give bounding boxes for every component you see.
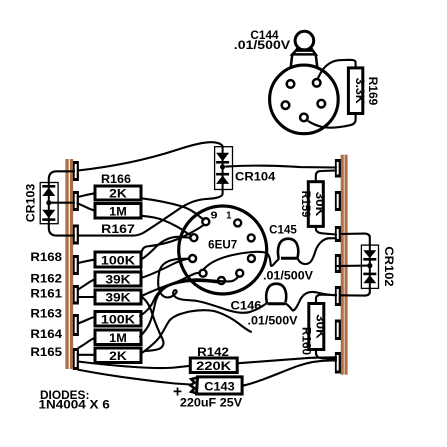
lug L2 (73, 191, 79, 211)
lugs left strip (73, 161, 79, 370)
pin 3 (248, 255, 255, 262)
svg-text:2K: 2K (109, 351, 127, 363)
resistor R165 (95, 348, 141, 363)
wire R160 bottom to lug G (316, 349, 336, 359)
wire sweep pin 6 to C145 left (204, 252, 279, 270)
wire R159 bottom to lug C (316, 226, 336, 234)
wire CR102 top to lug C (340, 234, 370, 246)
wire R159 top to lug A (316, 171, 336, 182)
wire R168 right to pin 8 (142, 237, 191, 259)
pin 5 (218, 277, 225, 284)
svg-text:.01/500V: .01/500V (248, 316, 298, 328)
lug R4 (335, 254, 341, 273)
wire R163 right to pin 5 (140, 281, 218, 316)
wire lug7 to C143 left (78, 370, 191, 385)
lug L7 (73, 348, 79, 370)
svg-text:R160: R160 (300, 327, 312, 355)
resistor R142 (190, 358, 237, 373)
wire CR104 bottom, down-left to lug3 wire (78, 189, 223, 235)
svg-text:R169: R169 (366, 77, 378, 106)
resistor R166 (95, 186, 141, 201)
capacitor C143 (190, 377, 242, 394)
wire CR103 top to lug1 (49, 171, 74, 183)
lug R7 (335, 352, 341, 374)
wire lug7 to R142 left (78, 362, 190, 369)
lug R3 (335, 226, 341, 242)
wire J hook from R161 stub (141, 296, 164, 351)
pin 8 (190, 234, 197, 241)
wire R167 1M right to pin 8 top (142, 216, 192, 236)
svg-text:R163: R163 (30, 309, 62, 321)
svg-text:1N4004 X 6: 1N4004 X 6 (39, 400, 110, 412)
terminal strip left (65, 159, 73, 369)
wire R164 right to pin 4 (140, 276, 239, 336)
lug L1 (73, 161, 79, 181)
wire CR103 mid to lug2 (49, 202, 74, 204)
socket C144 pin d (318, 100, 326, 108)
wire lug7 to R165 left (78, 354, 95, 356)
capacitor C146 (266, 284, 286, 304)
svg-text:R161: R161 (30, 289, 62, 301)
pin 6 (200, 270, 207, 277)
svg-text:C145: C145 (269, 225, 297, 237)
svg-text:R159: R159 (299, 191, 311, 218)
socket C144 pin c (282, 101, 290, 109)
lug R1 (335, 159, 341, 178)
lugs right strip (335, 159, 341, 374)
svg-text:6EU7: 6EU7 (208, 240, 237, 252)
wire R166 right to pin 9 (142, 198, 204, 219)
svg-text:1: 1 (226, 209, 231, 221)
wire lug5 to R161 left (78, 296, 95, 298)
lug R6 (335, 320, 341, 341)
diode pack CR103 (40, 183, 58, 224)
wire C143 right to lug G (242, 360, 336, 385)
lug R2 (335, 191, 341, 211)
wire C145 right to lug C (298, 238, 337, 264)
resistor R160 (309, 304, 326, 350)
wire R160 top to lug E (316, 295, 336, 304)
pin 7 (189, 255, 196, 262)
wire R165 right long sweep (142, 310, 252, 353)
svg-text:CR103: CR103 (26, 184, 38, 223)
pin 1 (234, 219, 241, 226)
svg-text:3.3K: 3.3K (353, 78, 365, 105)
svg-text:9: 9 (211, 209, 218, 221)
svg-text:.01/500V: .01/500V (234, 40, 291, 52)
wire CR102 bottom to lug E (340, 288, 370, 295)
resistor R169 (348, 68, 365, 114)
wire pin 7 loop to C146 left leg (158, 259, 266, 313)
resistor R163 (95, 312, 141, 327)
lug R5 (335, 286, 341, 306)
resistor R167 1M (95, 204, 141, 219)
svg-text:R164: R164 (30, 329, 62, 341)
wire pin 9 down to R162 stub (141, 225, 204, 278)
wire lug5 to R162 left (78, 279, 95, 289)
wire lug2 to R166 left (78, 193, 96, 197)
diode pack CR102 (361, 245, 378, 288)
tube socket C144 (270, 65, 339, 134)
svg-text:220K: 220K (196, 361, 232, 373)
resistor R168 (95, 252, 141, 268)
svg-text:30K: 30K (313, 192, 325, 217)
wire lug6 to R163 left (78, 317, 95, 324)
svg-text:R168: R168 (30, 252, 62, 264)
wire R169 bottom to C144 socket bottom (309, 114, 356, 128)
svg-text:R166: R166 (101, 174, 131, 186)
svg-text:C146: C146 (231, 301, 262, 313)
svg-text:39K: 39K (105, 275, 131, 287)
svg-text:2K: 2K (109, 189, 127, 201)
wire CR104 mid to right lug A (226, 166, 336, 168)
svg-text:R142: R142 (197, 347, 229, 359)
wires group (49, 60, 370, 386)
pin 2 (248, 234, 255, 241)
wire lug1 to CR104 top (78, 142, 223, 170)
svg-text:R167: R167 (101, 224, 135, 236)
diode pack CR104 (215, 147, 233, 190)
lug L3 (73, 225, 79, 245)
wire lug2 to R167 left (78, 204, 96, 211)
socket C144 pin a (287, 80, 295, 88)
pin 4 (236, 270, 243, 277)
svg-text:39K: 39K (105, 293, 131, 305)
svg-text:220uF 25V: 220uF 25V (180, 398, 243, 410)
resistor R161 (95, 290, 141, 305)
capacitor C145 (278, 239, 298, 259)
wire CR102 mid to lug D (337, 265, 370, 267)
tube socket 6EU7 (179, 206, 267, 294)
wire lug7 to R164 left (79, 338, 96, 348)
wire C146 right to lug E (285, 292, 336, 310)
socket C144 pin b (313, 79, 321, 87)
resistor R159 (308, 182, 325, 227)
svg-text:100K: 100K (101, 315, 136, 327)
wire CR103 bottom to lug3 (49, 224, 74, 236)
wire R142 right to lug G (237, 357, 336, 363)
svg-text:1M: 1M (109, 207, 127, 219)
svg-text:100K: 100K (101, 256, 136, 268)
lug L5 (73, 285, 79, 305)
wire R169 top to C144 socket pin b (318, 60, 356, 79)
svg-text:CR102: CR102 (382, 246, 394, 286)
svg-text:30K: 30K (314, 314, 326, 339)
wire R161 right to pin 6 (141, 273, 200, 297)
resistor R162 (95, 272, 141, 287)
svg-text:R165: R165 (30, 347, 62, 359)
wire lug4 to R168 left (78, 260, 95, 263)
svg-text:1M: 1M (109, 333, 127, 345)
svg-text:R162: R162 (30, 274, 62, 286)
lug L4 (73, 255, 79, 275)
wire R162 right to pin 7 (142, 259, 190, 278)
socket C144 pin e (300, 114, 308, 122)
svg-text:CR104: CR104 (235, 172, 276, 184)
svg-text:.01/500V: .01/500V (263, 271, 313, 283)
terminal strip right (341, 155, 348, 375)
resistor R164 (95, 330, 141, 345)
capacitor C144 (291, 31, 317, 66)
svg-text:C143: C143 (204, 382, 235, 394)
pin 9 (202, 218, 209, 225)
lug L6 (73, 314, 79, 336)
